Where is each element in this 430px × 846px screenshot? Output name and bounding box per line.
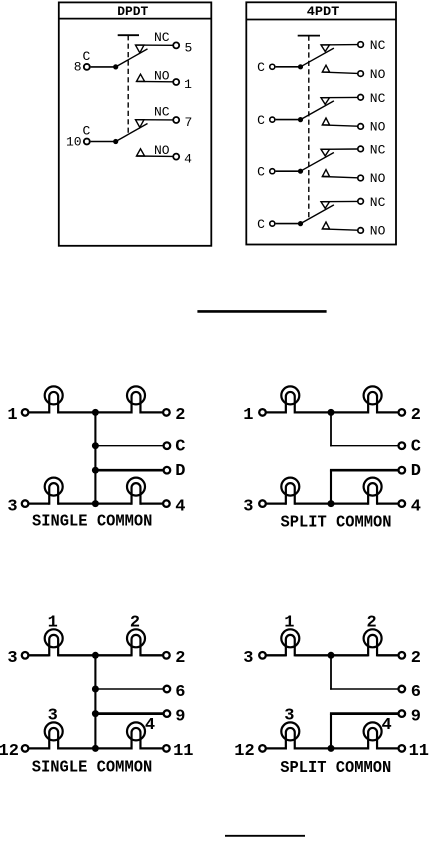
svg-text:1: 1	[48, 614, 58, 633]
svg-text:NO: NO	[154, 143, 170, 158]
svg-text:4: 4	[145, 716, 155, 735]
svg-text:C: C	[257, 164, 265, 179]
svg-text:6: 6	[411, 683, 421, 702]
svg-text:C: C	[175, 437, 185, 456]
svg-text:NC: NC	[370, 38, 386, 53]
svg-text:NO: NO	[370, 171, 386, 186]
svg-text:1: 1	[284, 614, 294, 633]
svg-text:3: 3	[243, 649, 253, 668]
svg-text:C: C	[257, 60, 265, 75]
svg-text:NO: NO	[370, 224, 386, 239]
svg-text:6: 6	[175, 683, 185, 702]
svg-text:1: 1	[184, 77, 192, 92]
svg-text:3: 3	[48, 707, 58, 726]
svg-text:C: C	[82, 49, 90, 64]
svg-text:NC: NC	[154, 30, 170, 45]
svg-text:12: 12	[234, 742, 254, 761]
svg-text:8: 8	[74, 60, 82, 75]
svg-text:7: 7	[184, 115, 192, 130]
svg-text:2: 2	[175, 406, 185, 425]
svg-text:2: 2	[366, 614, 376, 633]
svg-text:4: 4	[381, 716, 391, 735]
svg-text:D: D	[175, 462, 185, 481]
svg-text:11: 11	[173, 742, 193, 761]
svg-text:SPLIT COMMON: SPLIT COMMON	[281, 513, 392, 532]
svg-text:3: 3	[7, 649, 17, 668]
svg-text:4PDT: 4PDT	[307, 5, 340, 19]
svg-text:C: C	[257, 217, 265, 232]
svg-text:9: 9	[411, 707, 421, 726]
svg-text:C: C	[411, 437, 421, 456]
svg-text:NC: NC	[370, 195, 386, 210]
svg-text:SINGLE COMMON: SINGLE COMMON	[32, 512, 153, 531]
svg-text:NC: NC	[370, 91, 386, 106]
svg-text:1: 1	[7, 406, 17, 425]
svg-text:9: 9	[175, 707, 185, 726]
svg-text:D: D	[411, 462, 421, 481]
svg-text:2: 2	[411, 406, 421, 425]
svg-text:3: 3	[7, 497, 17, 516]
svg-text:NO: NO	[154, 69, 170, 84]
svg-text:NO: NO	[370, 67, 386, 82]
svg-text:NC: NC	[154, 105, 170, 120]
svg-text:4: 4	[184, 151, 192, 166]
svg-text:3: 3	[284, 707, 294, 726]
svg-text:10: 10	[66, 134, 82, 149]
svg-text:C: C	[257, 113, 265, 128]
svg-text:5: 5	[184, 40, 192, 55]
svg-text:2: 2	[130, 614, 140, 633]
svg-text:DPDT: DPDT	[117, 5, 149, 19]
svg-text:4: 4	[411, 497, 421, 516]
svg-text:NO: NO	[370, 120, 386, 135]
svg-text:2: 2	[411, 649, 421, 668]
svg-text:SINGLE COMMON: SINGLE COMMON	[32, 758, 153, 777]
svg-text:3: 3	[243, 497, 253, 516]
svg-text:NC: NC	[370, 143, 386, 158]
svg-text:4: 4	[175, 497, 185, 516]
svg-text:2: 2	[175, 649, 185, 668]
svg-text:11: 11	[409, 742, 429, 761]
svg-text:12: 12	[0, 742, 19, 761]
svg-text:1: 1	[243, 406, 253, 425]
svg-text:SPLIT COMMON: SPLIT COMMON	[280, 759, 391, 778]
svg-text:C: C	[82, 124, 90, 139]
